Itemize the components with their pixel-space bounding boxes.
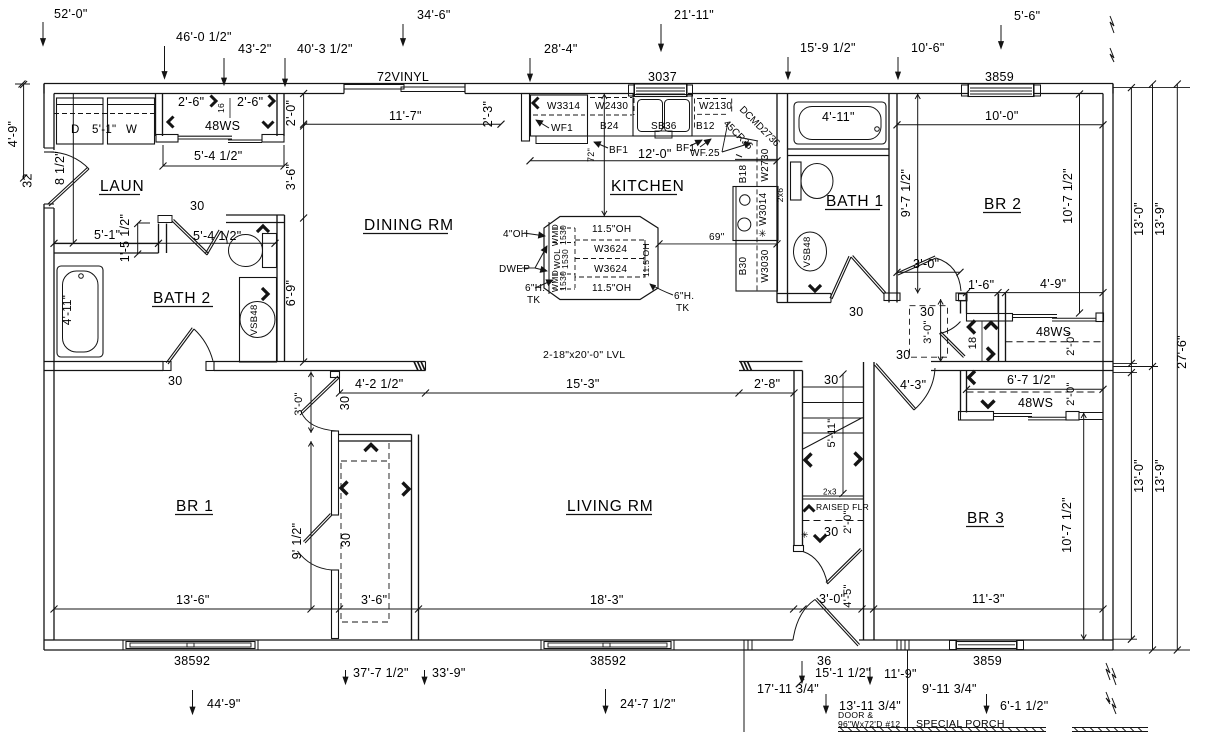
svg-text:B12: B12 [696,121,715,132]
closet 48WS upper left jamb [959,294,968,301]
cabinet column B18/W2730 [735,158,778,160]
sink SB36 [633,95,692,137]
svg-text:12'-0": 12'-0" [638,147,672,161]
closet 48WS lower dash [967,391,1097,393]
svg-text:DWEP: DWEP [499,264,530,275]
closet BR1 top wall [339,434,412,436]
door BR2 [898,258,936,275]
wall bath2 right [276,215,278,362]
svg-text:2-18"x20'-0" LVL: 2-18"x20'-0" LVL [543,349,625,361]
svg-text:13'-9": 13'-9" [1153,459,1167,493]
svg-text:30: 30 [339,533,353,548]
svg-text:W3314: W3314 [547,101,580,112]
svg-text:4"OH: 4"OH [503,229,528,240]
svg-text:2'-8": 2'-8" [754,377,780,391]
svg-text:BR 2: BR 2 [984,196,1022,213]
window 38592 right (bottom wall) [544,642,671,649]
toilet WC [263,234,277,268]
svg-text:DINING RM: DINING RM [364,217,454,234]
vanity bath2 VSB48 [240,278,277,363]
svg-text:5'-1": 5'-1" [94,228,120,242]
wall WC top [226,214,285,216]
svg-text:WF1: WF1 [551,123,573,134]
right dim extensions [1113,87,1190,89]
arrow 24'-7 [605,689,607,713]
chevron vanity bath2 [262,288,268,300]
wall stair top [739,361,803,363]
chevron WC [257,226,269,232]
door bath1 [832,257,851,299]
chevrons closet lower [969,371,976,384]
porch right line [907,650,909,732]
stair chevrons [805,454,812,467]
svg-text:W2730: W2730 [760,148,771,181]
svg-text:2'-3": 2'-3" [481,101,495,127]
closet BR1 left slab lower [332,570,339,639]
svg-text:37'-7 1/2": 37'-7 1/2" [353,666,409,680]
svg-text:9'-11 3/4": 9'-11 3/4" [922,682,977,696]
stair chevron down [814,535,826,541]
svg-text:BATH 2: BATH 2 [153,290,211,307]
svg-text:3037: 3037 [648,70,677,84]
svg-text:2'-0": 2'-0" [1065,332,1077,355]
svg-text:2'-0": 2'-0" [1065,382,1077,405]
wall closet LAUN left [155,94,157,137]
svg-text:10'-7 1/2": 10'-7 1/2" [1061,168,1075,224]
svg-text:1530: 1530 [560,249,570,269]
svg-text:18: 18 [967,337,979,350]
svg-text:2'-6": 2'-6" [237,95,263,109]
svg-text:3'-6": 3'-6" [361,593,387,607]
svg-text:WF.25: WF.25 [690,148,720,159]
hatch wall end (## mark) [414,362,418,371]
wall mid right (under BR2) [931,361,1113,363]
arrow 9-11 [986,694,988,713]
wall exterior bottom [44,649,1113,651]
wall mid left (bath2 bottom) [44,361,163,363]
svg-text:5'-6": 5'-6" [1014,9,1040,23]
dim kitchen vertical [603,94,605,217]
hatch stair wall (## mark) [741,362,745,371]
svg-text:52'-0": 52'-0" [54,7,88,21]
svg-text:✳ W3014: ✳ W3014 [758,192,769,237]
svg-text:16: 16 [216,103,226,113]
cabinet run counter edge [588,135,737,137]
range [733,187,778,241]
svg-text:KITCHEN: KITCHEN [611,178,685,195]
svg-text:11'-7": 11'-7" [389,109,422,123]
svg-text:W3624: W3624 [594,244,627,255]
svg-text:30: 30 [190,199,205,213]
svg-text:2x6: 2x6 [775,188,785,203]
svg-text:5'-1": 5'-1" [92,124,116,136]
chevrons closet upper [969,321,976,334]
door stair bottom [803,552,828,585]
svg-text:15'-9 1/2": 15'-9 1/2" [800,41,856,55]
dim line y292 [967,292,1104,294]
svg-text:VSB48: VSB48 [802,236,813,267]
cabinet dashes W2130/B12 [694,99,696,131]
chevron laun closet L [168,117,174,128]
door arc closet upper [940,322,961,334]
svg-text:30: 30 [896,348,911,362]
cabinet dashes W2430/B24 [587,95,589,136]
svg-text:11.5"OH: 11.5"OH [592,283,631,294]
corner cabinet diagonal [736,137,758,141]
svg-text:LIVING RM: LIVING RM [567,498,653,515]
arrow 44'-9 [192,690,194,714]
svg-text:4'-9": 4'-9" [1040,277,1066,291]
window 3037 (top wall) [634,84,687,97]
svg-text:5'-11": 5'-11" [826,418,838,447]
closet BR1 right wall [411,435,413,641]
ticks right-bottom [1112,668,1116,685]
wall kitchen counter end [522,94,530,142]
cabinet W3314/WF1 [531,95,588,136]
svg-text:10'-0": 10'-0" [985,109,1019,123]
kitchen island [544,217,658,300]
svg-text:46'-0 1/2": 46'-0 1/2" [176,30,232,44]
wall exterior top [44,83,1113,85]
door laundry exterior + wire [49,169,89,206]
closet BR1 dashes [341,461,389,622]
svg-text:3'-0": 3'-0" [913,257,939,271]
door BR1 [331,372,340,378]
svg-text:4'-11": 4'-11" [822,110,855,124]
svg-text:W2430: W2430 [595,101,628,112]
svg-text:30: 30 [338,396,352,411]
cabinet B30/W3030 [736,241,778,292]
svg-text:24'-7 1/2": 24'-7 1/2" [620,697,676,711]
svg-text:5'-4 1/2": 5'-4 1/2" [194,149,242,163]
svg-text:SB36: SB36 [651,121,677,132]
svg-text:3'-0": 3'-0" [293,392,305,415]
wall kitchen/bath1 [776,94,778,303]
wall laun/bath2 divider [54,243,159,245]
chevron bath1 [809,285,821,291]
svg-text:30: 30 [824,373,839,387]
window 3859 (top wall) [968,84,1034,97]
svg-text:1'-5 1/2": 1'-5 1/2" [118,214,132,262]
vanity bath1 VSB48 [794,232,827,271]
svg-text:4'-3": 4'-3" [900,378,926,392]
svg-text:30: 30 [168,374,183,388]
porch left line [743,650,745,732]
svg-text:11.5"OH: 11.5"OH [592,224,631,235]
door entry [815,600,858,647]
svg-text:BR 1: BR 1 [176,498,214,515]
bathtub bath1 [794,102,886,144]
svg-text:18'-3": 18'-3" [590,593,624,607]
svg-text:9'-7 1/2": 9'-7 1/2" [899,169,913,217]
arrow 15-1 [801,661,803,683]
stair 2x3 line [803,495,864,497]
stair treads [803,386,864,388]
svg-text:13'-0": 13'-0" [1132,459,1146,493]
washer dryer [57,98,104,144]
svg-text:34'-6": 34'-6" [417,8,451,22]
svg-text:D: D [71,124,80,136]
svg-text:10'-7 1/2": 10'-7 1/2" [1060,497,1074,553]
svg-text:48WS: 48WS [205,119,240,133]
dim vertical x73 [72,94,74,244]
svg-text:11'-3": 11'-3" [972,592,1005,606]
raised floor arrow [804,506,815,512]
svg-text:W: W [126,124,137,136]
svg-text:LAUN: LAUN [100,178,145,195]
closet 48WS upper dash [1006,341,1104,343]
svg-text:11'-9": 11'-9" [884,667,917,681]
slash 17-11 [796,679,804,687]
svg-text:10'-6": 10'-6" [911,41,945,55]
window 36 (bottom wall) [896,640,898,650]
svg-text:B18: B18 [738,165,749,184]
svg-text:3'-6": 3'-6" [284,164,298,190]
svg-text:4'-11": 4'-11" [62,295,74,325]
svg-text:TK: TK [527,295,540,306]
wall bath1 tub ledge [788,148,889,150]
porch bottom band [838,727,1046,729]
door WC bifold [158,216,172,223]
svg-text:32: 32 [21,173,35,188]
toilet bath1 [791,162,802,200]
svg-text:69": 69" [709,232,725,243]
svg-text:6'-1 1/2": 6'-1 1/2" [1000,699,1048,713]
svg-text:48WS: 48WS [1018,396,1053,410]
svg-text:B30: B30 [738,257,749,276]
door closet BR1 [305,515,332,543]
door bath2 main [168,329,194,364]
svg-text:4'-2 1/2": 4'-2 1/2" [355,377,403,391]
svg-text:17'-11 3/4": 17'-11 3/4" [757,682,819,696]
wall exterior right [1112,84,1114,651]
svg-text:1530: 1530 [558,225,568,245]
svg-text:2x3: 2x3 [823,488,837,497]
arrow 13-11 [825,694,827,713]
wall bath1 bottom [777,293,831,295]
chevron W3314 [533,98,539,109]
svg-text:2'-6": 2'-6" [178,95,204,109]
wall closet divider [998,294,1000,362]
svg-text:43'-2": 43'-2" [238,42,272,56]
porch attach hatch (bottom wall) [743,640,745,650]
svg-text:15'-3": 15'-3" [566,377,600,391]
svg-text:B24: B24 [600,121,619,132]
window 72VINYL (top wall) [344,85,404,90]
svg-text:13'-6": 13'-6" [176,593,210,607]
svg-text:40'-3 1/2": 40'-3 1/2" [297,42,353,56]
svg-text:38592: 38592 [174,654,210,668]
svg-text:W3030: W3030 [760,249,771,282]
svg-text:TK: TK [676,303,689,314]
svg-text:BF1: BF1 [609,145,628,156]
svg-text:2'-0": 2'-0" [284,100,298,126]
closet 48WS upper shelf [967,314,1013,322]
svg-text:6"H.: 6"H. [674,291,694,302]
leader 45CR [722,122,728,152]
door BR3 hall [875,365,915,410]
svg-text:6'-7 1/2": 6'-7 1/2" [1007,373,1055,387]
stair dashed [803,520,864,522]
dim line y609 [54,608,1103,610]
svg-text:28'-4": 28'-4" [544,42,578,56]
chevron laun closet D [263,122,274,128]
svg-text:4'-9": 4'-9" [6,121,20,147]
wall exterior left [43,84,45,149]
arrow 37-7a [345,670,347,684]
svg-text:72": 72" [586,148,596,162]
wall BR3 left [863,362,865,640]
svg-text:9' 1/2": 9' 1/2" [290,523,304,560]
svg-text:30: 30 [849,305,864,319]
svg-text:2'-0": 2'-0" [842,510,854,533]
svg-text:VSB48: VSB48 [249,304,260,335]
svg-text:W2130: W2130 [699,101,732,112]
svg-text:15'-1 1/2": 15'-1 1/2" [815,666,871,680]
window 3859 (bottom wall) [956,642,1017,649]
svg-text:1'-6": 1'-6" [968,278,994,292]
svg-text:1530: 1530 [558,271,568,291]
arrow 36 [869,667,871,684]
svg-text:✳: ✳ [801,530,809,540]
closet LAUN front + doors [156,135,178,143]
svg-text:72VINYL: 72VINYL [377,70,429,84]
svg-text:30: 30 [824,525,839,539]
svg-text:13'-9": 13'-9" [1153,202,1167,236]
svg-text:13'-0": 13'-0" [1132,202,1146,236]
svg-text:3859: 3859 [985,70,1014,84]
wall bath1/BR2 [888,94,890,303]
svg-text:8 1/2": 8 1/2" [53,151,67,185]
svg-text:38592: 38592 [590,654,626,668]
svg-text:3'-0": 3'-0" [922,320,934,343]
window 38592 left (bottom wall) [126,642,255,649]
svg-text:44'-9": 44'-9" [207,697,241,711]
tick top-left [15,83,30,85]
svg-text:21'-11": 21'-11" [674,8,714,22]
bathtub bath2 [57,266,103,357]
wall closet LAUN right [276,94,278,137]
svg-text:30: 30 [920,305,935,319]
svg-text:5'-4 1/2": 5'-4 1/2" [193,229,241,243]
svg-text:6'-9": 6'-9" [284,280,298,306]
wall stair left [793,371,795,546]
svg-text:BATH 1: BATH 1 [826,193,884,210]
break marks bottom-right [1106,663,1110,680]
svg-text:W3624: W3624 [594,264,627,275]
svg-text:3859: 3859 [973,654,1002,668]
svg-text:BR 3: BR 3 [967,510,1005,527]
hall closet dashed [910,306,948,358]
dim vline x311 [310,372,312,434]
closet BR1 left slab upper [332,431,339,515]
svg-text:33'-9": 33'-9" [432,666,466,680]
break marks top-right [1110,16,1114,33]
dim line y393 [340,392,795,394]
closet 48WS lower walls [960,371,962,413]
svg-text:11.5"OH: 11.5"OH [641,243,651,277]
dim col x303 ticks [303,94,305,363]
closet BR1 chevrons [365,445,378,452]
svg-text:4'-5": 4'-5" [842,584,854,607]
